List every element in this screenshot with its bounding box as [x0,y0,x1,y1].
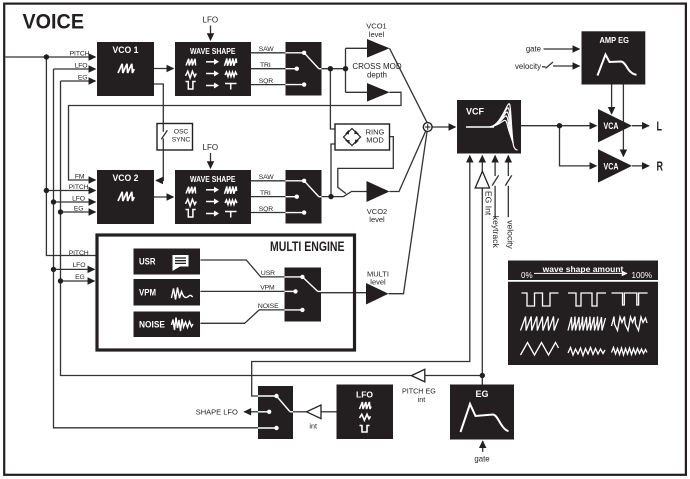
svg-text:LFO: LFO [72,195,85,202]
svg-text:VCO 2: VCO 2 [113,173,139,184]
svg-text:velocity: velocity [515,62,541,71]
svg-text:VCA: VCA [604,121,619,132]
svg-text:LFO: LFO [72,262,85,269]
svg-text:VCF: VCF [466,107,485,117]
svg-text:VCA: VCA [604,161,619,172]
svg-text:VPM: VPM [260,285,275,292]
svg-text:LFO: LFO [203,16,219,25]
svg-text:int: int [418,395,426,404]
svg-text:TRI: TRI [260,62,271,69]
svg-text:R: R [657,159,664,174]
svg-text:MOD: MOD [366,136,384,145]
svg-text:L: L [657,119,663,134]
svg-text:EG: EG [78,74,88,81]
svg-text:SQR: SQR [259,78,274,85]
svg-text:EG: EG [475,389,488,399]
svg-text:SAW: SAW [259,46,275,53]
svg-text:velocity: velocity [505,220,515,249]
svg-text:SQR: SQR [259,206,274,213]
svg-text:EG Int: EG Int [484,191,494,216]
svg-text:PITCH: PITCH [69,250,89,257]
svg-text:PITCH: PITCH [70,50,90,57]
svg-text:VCO 1: VCO 1 [113,45,140,56]
svg-text:NOISE: NOISE [258,303,279,310]
svg-text:VPM: VPM [139,288,156,298]
svg-text:100%: 100% [632,271,652,280]
svg-text:gate: gate [526,45,541,54]
svg-text:int: int [309,421,317,430]
svg-text:TRI: TRI [260,190,271,197]
svg-text:USR: USR [139,257,156,267]
svg-text:USR: USR [261,270,275,277]
svg-text:OSC: OSC [174,129,189,136]
svg-text:keytrack: keytrack [491,216,501,249]
svg-text:0%: 0% [521,271,533,280]
svg-text:SHAPE LFO: SHAPE LFO [196,408,238,417]
svg-text:wave shape amount: wave shape amount [542,264,624,274]
svg-text:LFO: LFO [203,143,219,152]
svg-text:EG: EG [75,274,85,281]
svg-text:LFO: LFO [356,390,373,400]
svg-text:level: level [369,215,385,224]
svg-text:NOISE: NOISE [139,320,165,330]
svg-text:LFO: LFO [75,62,88,69]
svg-text:PITCH: PITCH [69,184,89,191]
svg-text:depth: depth [367,70,387,79]
svg-text:level: level [369,30,385,39]
svg-text:PITCH EG: PITCH EG [402,387,436,396]
svg-text:gate: gate [474,454,489,463]
svg-text:EG: EG [74,206,84,213]
svg-text:SAW: SAW [259,174,275,181]
svg-text:FM: FM [75,173,85,180]
svg-text:VOICE: VOICE [23,10,85,34]
svg-text:SYNC: SYNC [172,137,191,144]
svg-text:AMP EG: AMP EG [600,35,630,45]
svg-text:level: level [370,277,386,286]
svg-text:MULTI ENGINE: MULTI ENGINE [270,239,345,254]
